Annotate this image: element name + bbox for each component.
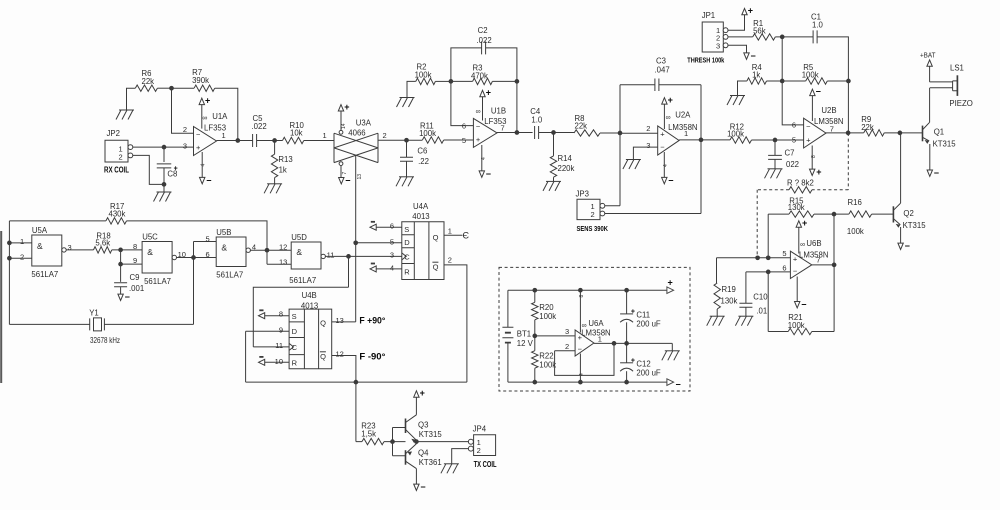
svg-text:+: + — [631, 357, 635, 364]
svg-text:561LA7: 561LA7 — [31, 270, 58, 279]
ground under C8 — [157, 191, 172, 193]
svg-text:13: 13 — [336, 316, 344, 325]
connector JP2 (RX COIL) — [105, 140, 128, 162]
svg-text:561LA7: 561LA7 — [216, 271, 243, 280]
svg-text:1,5k: 1,5k — [361, 429, 376, 438]
flip-flop U4B 4013 — [289, 309, 332, 369]
svg-text:1k: 1k — [752, 71, 760, 80]
node R9 left — [846, 131, 851, 136]
U5B pin5 wire — [194, 241, 217, 243]
U4B clock chevron — [289, 343, 293, 350]
svg-text:Q: Q — [320, 318, 326, 327]
op-amp U1A LF353 — [194, 127, 217, 156]
node dashed tap — [755, 255, 760, 260]
svg-text:RX COIL: RX COIL — [104, 166, 129, 175]
resistor R13 — [274, 141, 276, 155]
svg-text:+: + — [476, 135, 481, 144]
svg-text:BT1: BT1 — [517, 329, 531, 338]
svg-text:−: − — [206, 175, 211, 185]
node R4/R5 — [780, 79, 785, 84]
svg-text:100k: 100k — [419, 129, 436, 138]
svg-text:100k: 100k — [539, 312, 556, 321]
node R1/C1 — [780, 35, 785, 40]
svg-text:2: 2 — [448, 256, 452, 265]
svg-text:100k: 100k — [788, 321, 805, 330]
svg-text:11: 11 — [275, 341, 283, 350]
svg-text:S: S — [292, 312, 297, 321]
capacitor C10 — [745, 272, 747, 303]
svg-text:9: 9 — [133, 256, 137, 265]
svg-text:22k: 22k — [142, 77, 155, 86]
svg-text:10k: 10k — [290, 129, 303, 138]
svg-text:+: + — [806, 135, 811, 144]
capacitor C5 — [253, 134, 257, 147]
svg-text:LM358N: LM358N — [814, 117, 843, 126]
capacitor C2 feedback — [451, 48, 482, 82]
svg-text:14: 14 — [341, 123, 347, 129]
svg-text:C7: C7 — [785, 148, 795, 157]
svg-text:−: − — [934, 168, 939, 178]
svg-text:KT315: KT315 — [933, 139, 957, 148]
svg-text:Q2: Q2 — [903, 209, 913, 218]
svg-text:−: − — [816, 86, 821, 96]
svg-text:56k: 56k — [753, 26, 766, 35]
svg-text:−: − — [905, 241, 910, 251]
node U2A out — [699, 138, 704, 143]
node C7 tap — [773, 138, 778, 143]
svg-text:3: 3 — [68, 243, 72, 252]
svg-text:LM358N: LM358N — [581, 328, 610, 337]
svg-text:SENS 390K: SENS 390K — [577, 224, 609, 233]
svg-text:Y1: Y1 — [89, 309, 99, 318]
svg-text:2: 2 — [565, 342, 569, 351]
power supply dashed box — [499, 267, 690, 391]
svg-text:Є: Є — [463, 231, 470, 241]
svg-text:R22: R22 — [539, 351, 553, 360]
svg-text:U6B: U6B — [806, 239, 821, 248]
transistor Q1 KT315 — [922, 126, 924, 142]
resistor R10 — [283, 137, 304, 143]
U6B V+ arrow — [796, 221, 801, 227]
svg-text:LS1: LS1 — [950, 64, 964, 73]
node emitters — [414, 439, 419, 444]
svg-text:R16: R16 — [848, 198, 862, 207]
Q2 collector wire — [900, 133, 902, 203]
wire to JP4 pin1 — [416, 441, 468, 443]
svg-text:C11: C11 — [636, 311, 650, 320]
U2B pin5 wire — [775, 139, 804, 141]
node Q2 collector riser — [898, 131, 903, 136]
node C4/R14 — [551, 130, 556, 135]
U5C pin10 output wire — [177, 257, 217, 259]
node U4B clock branch — [346, 254, 351, 259]
ground under R19 — [710, 315, 725, 317]
svg-text:022: 022 — [786, 160, 799, 169]
svg-text:3: 3 — [646, 141, 650, 150]
U5D pin11 output wire to U4A clock — [325, 255, 401, 257]
vertical wire C3 right / U2A out / JP3 pin2 — [605, 85, 701, 214]
U3A control pin13 wire (F+90 line down to U4B Q) — [355, 155, 357, 322]
svg-text:Q4: Q4 — [418, 449, 429, 458]
riser to crystal — [193, 242, 195, 325]
svg-text:32678 kHz: 32678 kHz — [90, 336, 120, 345]
svg-text:1: 1 — [598, 335, 602, 344]
svg-text:U1A: U1A — [212, 112, 228, 121]
svg-text:C6: C6 — [417, 147, 427, 156]
svg-text:1.0: 1.0 — [531, 115, 543, 124]
svg-text:F +90°: F +90° — [359, 316, 385, 327]
scan artifact bar left edge — [0, 231, 2, 383]
dashed option wire R?8k2 — [847, 133, 849, 190]
svg-text:5: 5 — [206, 234, 210, 243]
svg-text:+: + — [631, 308, 635, 315]
node C8 bottom — [162, 182, 167, 187]
resistor R19 — [716, 258, 718, 283]
svg-text:4: 4 — [390, 264, 394, 273]
svg-text:100k: 100k — [415, 71, 432, 80]
svg-text:Q: Q — [433, 233, 439, 242]
svg-text:470k: 470k — [471, 71, 488, 80]
JP1 pin1 wire to V+ — [728, 15, 745, 30]
svg-text:+: + — [420, 388, 425, 398]
wire node to U1B pin6 — [451, 81, 474, 125]
U5D pin13 wire — [267, 250, 291, 264]
svg-text:U1B: U1B — [491, 106, 506, 115]
node R18/C9 — [118, 248, 123, 253]
svg-text:∞: ∞ — [582, 322, 587, 329]
resistor R17 feedback — [9, 220, 106, 222]
U4A pin4 R input — [370, 266, 376, 272]
svg-text:7: 7 — [830, 124, 834, 133]
svg-text:10: 10 — [275, 357, 283, 366]
svg-text:11: 11 — [327, 250, 335, 259]
svg-text:6: 6 — [782, 263, 786, 272]
svg-text:1: 1 — [222, 131, 226, 140]
vertical wire R8 node to JP3 pin1 — [605, 85, 620, 206]
svg-text:PIEZO: PIEZO — [949, 99, 972, 108]
U1B V- arrow — [479, 171, 484, 177]
svg-text:−: − — [125, 292, 130, 302]
svg-text:&: & — [221, 243, 227, 253]
U2A V- arrow — [662, 177, 667, 183]
svg-text:5,6k: 5,6k — [95, 239, 110, 248]
gate U5A 561LA7 — [32, 235, 62, 266]
resistor R2 — [407, 81, 416, 97]
U2A pin3 wire to ground — [633, 147, 657, 159]
ground under R13 — [267, 183, 282, 185]
svg-text:7: 7 — [816, 256, 820, 265]
svg-text:2: 2 — [477, 446, 481, 455]
U4B pin11 C input from U5D — [253, 256, 348, 347]
svg-text:U6A: U6A — [588, 319, 604, 328]
flip-flop U4A 4013 — [402, 222, 444, 280]
capacitor C6 — [406, 140, 408, 157]
svg-text:C12: C12 — [636, 360, 650, 369]
svg-text:+: + — [486, 88, 491, 98]
svg-text:C2: C2 — [478, 26, 488, 35]
svg-text:22k: 22k — [861, 123, 874, 132]
svg-text:6: 6 — [390, 221, 394, 230]
ground under C7 — [768, 168, 783, 170]
svg-text:12: 12 — [336, 350, 344, 359]
resistor R23 — [362, 438, 384, 444]
svg-text:JP4: JP4 — [473, 424, 487, 433]
ground at U2A pin3 — [626, 159, 641, 161]
U2B V+ arrow bottom — [810, 169, 815, 175]
Q1 collector wire up — [929, 88, 931, 123]
svg-text:JP2: JP2 — [107, 129, 120, 138]
battery BT1 12V — [507, 290, 509, 382]
gate U5D 561LA7 — [291, 242, 321, 269]
svg-text:C3: C3 — [656, 57, 666, 66]
svg-text:7: 7 — [342, 172, 348, 175]
svg-text:1: 1 — [684, 129, 688, 138]
transistor Q2 KT315 — [892, 206, 894, 222]
resistor R8 — [574, 130, 600, 136]
svg-text:5: 5 — [462, 136, 466, 145]
capacitor C7 — [774, 140, 776, 155]
U1A V- arrow — [200, 177, 205, 183]
svg-text:4: 4 — [201, 164, 207, 167]
svg-text:−: − — [793, 266, 798, 275]
svg-text:D: D — [292, 327, 298, 336]
resistor R14 — [553, 133, 555, 156]
svg-text:&: & — [37, 241, 43, 251]
node U1A out — [235, 138, 240, 143]
U2B V- arrow top — [810, 89, 815, 95]
resistor R18 — [94, 247, 112, 253]
wire node down to R4/R5 and U2B pin6 — [782, 37, 803, 125]
resistor R12 — [730, 137, 751, 143]
resistor R7 — [172, 87, 195, 89]
rail nodes — [624, 288, 629, 293]
svg-text:KT315: KT315 — [903, 221, 927, 230]
U2A V+ arrow — [662, 98, 667, 104]
connector JP1 (THRESH) — [702, 22, 723, 52]
svg-text:−: − — [486, 169, 491, 179]
svg-text:R19: R19 — [722, 285, 736, 294]
svg-text:200 uF: 200 uF — [636, 368, 661, 377]
resistor R?8k2 (dashed) — [789, 187, 812, 193]
svg-text:THRESH 100k: THRESH 100k — [687, 56, 725, 65]
svg-text:+: + — [668, 95, 673, 105]
Q2 emitter to V- — [900, 227, 902, 243]
svg-text:JP1: JP1 — [702, 11, 715, 20]
transistor Q4 KT361 (PNP) — [405, 450, 407, 465]
svg-text:+: + — [660, 130, 665, 139]
U4B pin8 S input — [259, 313, 265, 319]
piezo LS1 — [930, 82, 953, 88]
node U5B out — [265, 248, 270, 253]
svg-text:3: 3 — [716, 42, 720, 51]
node R6/R7 — [169, 86, 174, 91]
resistor R1 — [728, 36, 753, 38]
svg-text:−: − — [420, 482, 425, 492]
svg-text:∞: ∞ — [800, 242, 805, 249]
svg-text:3: 3 — [390, 251, 394, 260]
JP4 pin2 wire to ground — [452, 449, 469, 464]
U5A pin2 wire — [9, 257, 31, 259]
svg-text:1k: 1k — [279, 166, 287, 175]
svg-text:9: 9 — [279, 326, 283, 335]
C9 V- arrow — [118, 294, 123, 300]
Q3 collector to V+ — [415, 397, 417, 415]
svg-text:1.0: 1.0 — [812, 20, 824, 29]
svg-text:430k: 430k — [109, 210, 126, 219]
U3A pin7 power bottom — [339, 162, 343, 166]
ground under C10 — [738, 315, 753, 317]
svg-text:R ? 8k2: R ? 8k2 — [787, 179, 814, 188]
svg-text:C9: C9 — [130, 273, 140, 282]
svg-text:+: + — [344, 102, 349, 112]
svg-text:R: R — [404, 267, 410, 276]
svg-text:Q: Q — [433, 263, 439, 272]
resistor R4 — [738, 81, 747, 96]
svg-text:C10: C10 — [753, 293, 768, 302]
svg-text:3: 3 — [183, 141, 187, 150]
svg-text:12: 12 — [279, 242, 287, 251]
svg-text:22k: 22k — [575, 122, 588, 131]
svg-text:6: 6 — [792, 120, 796, 129]
U3A pin14 power top — [339, 130, 343, 134]
svg-text:U5C: U5C — [142, 233, 158, 242]
svg-text:220k: 220k — [558, 164, 575, 173]
crystal Y1 32678 kHz — [9, 323, 193, 325]
svg-text:3: 3 — [565, 327, 569, 336]
U1A V+ arrow — [199, 98, 204, 104]
U6A pin3 wire — [535, 335, 575, 337]
svg-text:−: − — [578, 344, 583, 353]
svg-text:4: 4 — [481, 157, 487, 160]
node R13 tap — [272, 138, 277, 143]
wire R7 to U1A output node — [215, 88, 238, 140]
svg-text:100k: 100k — [539, 360, 556, 369]
svg-text:130k: 130k — [721, 297, 738, 306]
node C8 tap — [162, 145, 167, 150]
svg-text:12 V: 12 V — [517, 339, 534, 348]
op-amp U1B LF353 — [473, 118, 497, 147]
capacitor C11 200uF — [626, 290, 628, 314]
svg-text:U5B: U5B — [216, 228, 231, 237]
node U1B out — [515, 130, 520, 135]
svg-text:U5A: U5A — [32, 226, 48, 235]
node C6 tap — [404, 138, 409, 143]
JP1 pin3 wire to V- — [728, 45, 747, 52]
U4B pin9 D input loop — [246, 331, 290, 382]
svg-text:Q: Q — [320, 352, 326, 361]
node pin6 feedback — [766, 270, 771, 275]
node Q3/Q4 base — [390, 439, 395, 444]
svg-text:130k: 130k — [788, 203, 805, 212]
svg-text:−: − — [676, 379, 681, 389]
resistor R6 — [127, 88, 136, 110]
svg-text:&: & — [147, 247, 153, 257]
U6A power stubs — [579, 290, 581, 332]
capacitor C3 feedback — [620, 84, 655, 86]
svg-text:+: + — [196, 143, 201, 152]
svg-text:+: + — [802, 218, 807, 228]
svg-text:∞: ∞ — [202, 115, 207, 122]
wire JP2-1 to U1A pin3 — [133, 146, 194, 148]
op-amp U2A LM358N — [620, 132, 658, 134]
U6A feedback loop — [555, 343, 614, 375]
svg-text:−: − — [806, 122, 811, 131]
svg-text:JP3: JP3 — [576, 189, 589, 198]
svg-text:∞: ∞ — [666, 115, 671, 122]
resistor R15 — [768, 213, 789, 215]
ground under C6 — [399, 176, 414, 178]
svg-text:8: 8 — [579, 295, 585, 298]
svg-text:−: − — [476, 122, 481, 131]
U6A pin2 wire — [555, 350, 576, 352]
U4A pin5 D input from F+90 line — [356, 242, 402, 244]
svg-text:R13: R13 — [278, 155, 292, 164]
svg-text:6: 6 — [462, 122, 466, 131]
op-amp U2B LM358N — [804, 118, 826, 148]
transistor Q3 KT315 — [405, 419, 407, 434]
svg-text:1: 1 — [20, 237, 24, 246]
svg-text:2: 2 — [183, 125, 187, 134]
resistor R9 — [864, 130, 885, 136]
mid rail ground — [671, 343, 673, 350]
U5A pin1 wire — [9, 242, 31, 244]
svg-text:1: 1 — [323, 131, 327, 140]
U5C pin9 wire — [121, 250, 143, 282]
svg-text:R: R — [292, 359, 298, 368]
U4B pin10 R input — [259, 359, 265, 365]
svg-text:4013: 4013 — [412, 212, 429, 221]
svg-text:−: − — [345, 175, 350, 185]
svg-text:4066: 4066 — [348, 128, 365, 137]
svg-text:&: & — [296, 247, 302, 257]
svg-text:U3A: U3A — [356, 118, 372, 127]
gate U5B 561LA7 — [216, 237, 246, 267]
svg-text:C8: C8 — [167, 169, 177, 178]
wire F-90 to R23 — [355, 382, 357, 442]
svg-text:U2B: U2B — [821, 106, 836, 115]
svg-text:100k: 100k — [847, 227, 864, 236]
left bus vertical — [8, 221, 10, 325]
svg-text:8: 8 — [279, 310, 283, 319]
svg-text:8: 8 — [133, 242, 137, 251]
svg-text:R20: R20 — [539, 303, 554, 312]
node R2/R3 — [449, 79, 454, 84]
resistor R5 — [782, 80, 806, 82]
svg-text:∞: ∞ — [476, 109, 481, 116]
U5B pin4 output wire — [250, 249, 291, 251]
svg-text:1: 1 — [448, 226, 452, 235]
svg-text:Q1: Q1 — [934, 128, 944, 137]
svg-text:+: + — [816, 167, 821, 177]
capacitor C8 — [163, 147, 165, 162]
svg-text:100k: 100k — [802, 71, 819, 80]
svg-text:U4A: U4A — [413, 202, 429, 211]
svg-text:2: 2 — [591, 210, 595, 219]
svg-text:4013: 4013 — [301, 301, 318, 310]
svg-text:200 uF: 200 uF — [636, 319, 661, 328]
resistor R21 feedback — [768, 272, 788, 332]
svg-text:LM358N: LM358N — [668, 123, 697, 132]
ground at R2 — [400, 97, 415, 99]
svg-text:8: 8 — [811, 155, 817, 158]
svg-text:561LA7: 561LA7 — [289, 276, 316, 285]
svg-text:R14: R14 — [558, 154, 573, 163]
resistor R20 — [534, 290, 536, 302]
svg-text:+BAT: +BAT — [920, 52, 936, 59]
svg-text:Q3: Q3 — [418, 420, 428, 429]
svg-text:−: − — [196, 130, 201, 139]
svg-text:+: + — [668, 278, 673, 288]
